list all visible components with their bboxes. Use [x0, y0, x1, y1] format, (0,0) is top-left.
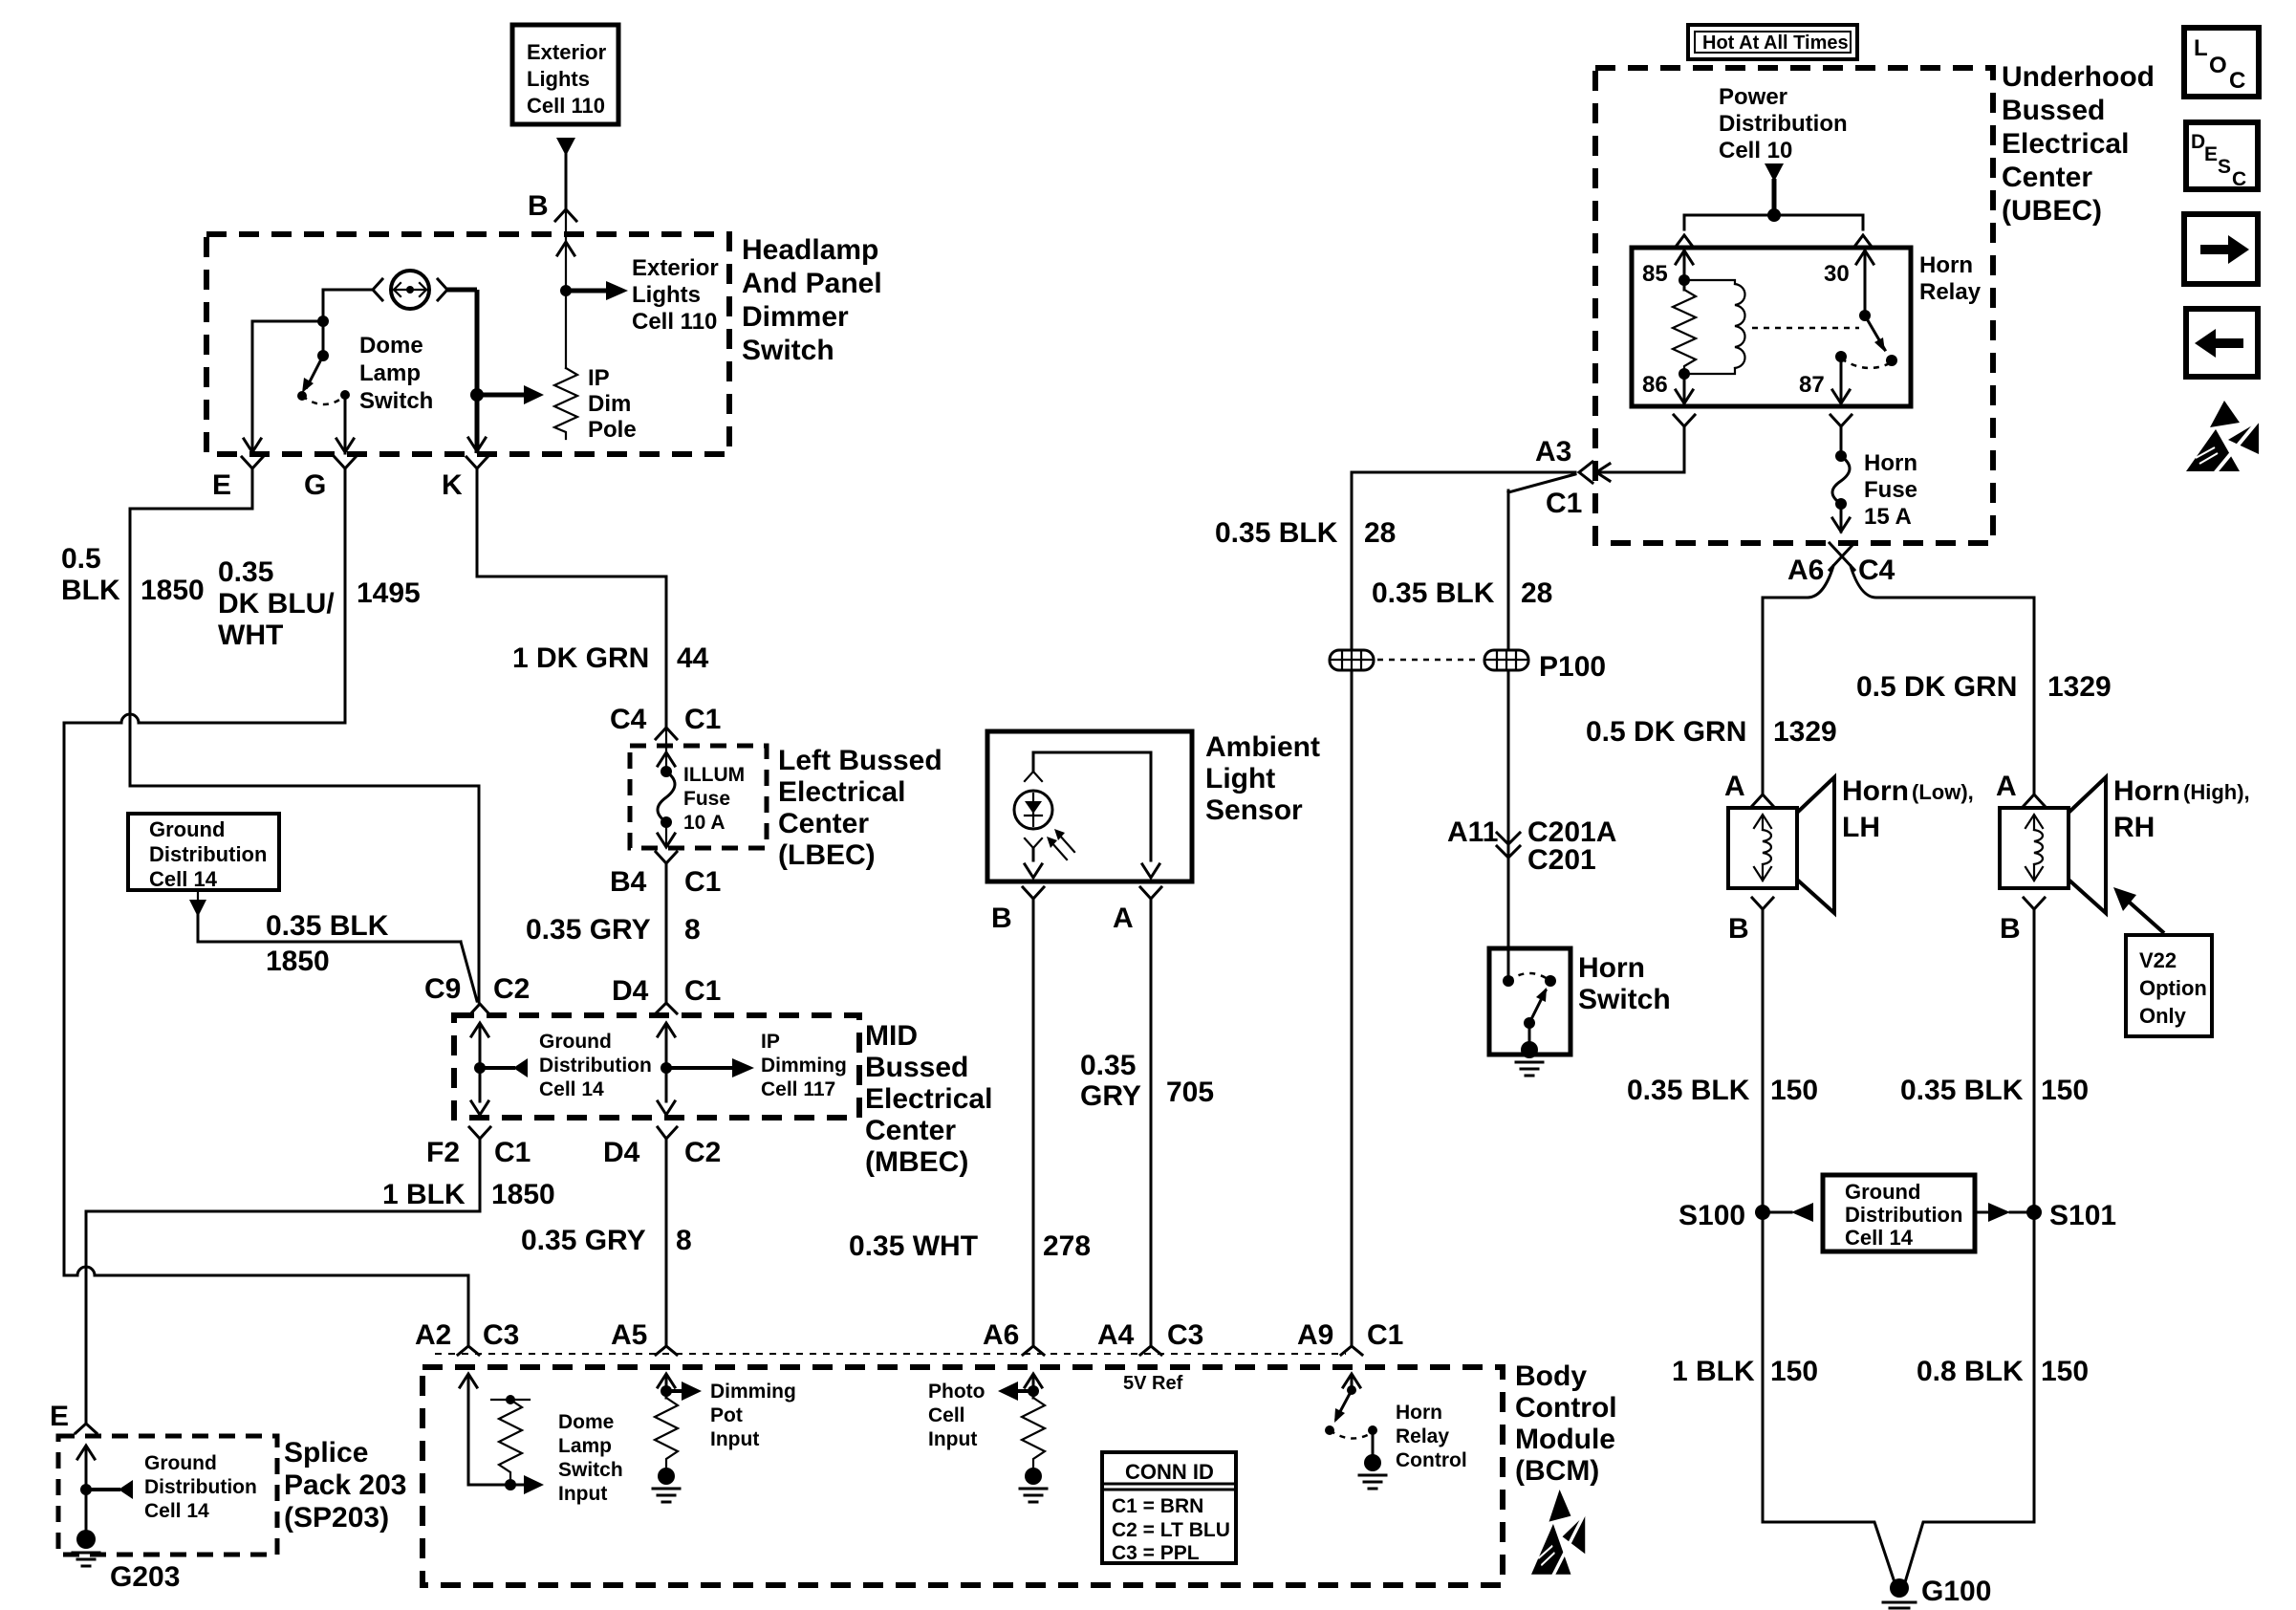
svg-text:A3: A3	[1535, 436, 1571, 468]
svg-text:C201: C201	[1527, 844, 1596, 876]
svg-text:Relay: Relay	[1396, 1425, 1449, 1447]
svg-text:(UBEC): (UBEC)	[2002, 195, 2102, 227]
svg-text:Option: Option	[2139, 976, 2207, 1000]
svg-text:1850: 1850	[266, 946, 330, 977]
svg-text:Pot: Pot	[710, 1404, 743, 1426]
svg-text:E: E	[2204, 143, 2218, 165]
svg-text:WHT: WHT	[218, 620, 283, 651]
svg-text:DK BLU/: DK BLU/	[218, 588, 335, 620]
svg-text:Horn: Horn	[1864, 450, 1917, 476]
svg-text:A: A	[1996, 771, 2017, 802]
svg-text:Center: Center	[778, 808, 869, 839]
svg-text:5V Ref: 5V Ref	[1123, 1373, 1183, 1394]
svg-text:P100: P100	[1539, 651, 1606, 683]
svg-text:C: C	[2229, 68, 2245, 94]
svg-text:Input: Input	[928, 1428, 977, 1450]
svg-text:Light: Light	[1205, 763, 1275, 794]
svg-text:Electrical: Electrical	[2002, 128, 2129, 160]
svg-text:0.35 BLK: 0.35 BLK	[1627, 1075, 1750, 1106]
svg-text:B: B	[2000, 913, 2021, 945]
svg-text:Horn: Horn	[2113, 775, 2180, 807]
svg-text:0.5 DK GRN: 0.5 DK GRN	[1856, 671, 2017, 703]
svg-text:150: 150	[1770, 1356, 1818, 1387]
svg-text:C4: C4	[1858, 555, 1895, 586]
svg-text:Lamp: Lamp	[359, 360, 421, 386]
svg-text:0.35 WHT: 0.35 WHT	[849, 1230, 978, 1262]
svg-text:A4: A4	[1097, 1319, 1135, 1351]
svg-text:Electrical: Electrical	[778, 776, 905, 808]
svg-text:IP: IP	[588, 365, 610, 391]
svg-text:Switch: Switch	[1578, 984, 1671, 1015]
svg-text:CONN ID: CONN ID	[1125, 1460, 1214, 1484]
svg-text:(MBEC): (MBEC)	[865, 1146, 968, 1178]
svg-text:A: A	[1113, 903, 1134, 934]
svg-text:Center: Center	[865, 1115, 956, 1146]
svg-text:Module: Module	[1515, 1424, 1615, 1455]
svg-text:Electrical: Electrical	[865, 1083, 992, 1115]
svg-text:A: A	[1724, 771, 1745, 802]
svg-text:Cell 14: Cell 14	[144, 1500, 209, 1522]
svg-text:GRY: GRY	[1080, 1080, 1141, 1112]
svg-text:B: B	[991, 903, 1012, 934]
svg-text:Distribution: Distribution	[1845, 1203, 1962, 1227]
svg-text:L: L	[2194, 35, 2208, 61]
svg-text:0.35: 0.35	[218, 556, 273, 588]
svg-text:0.35 BLK: 0.35 BLK	[1900, 1075, 2024, 1106]
svg-text:Ground: Ground	[144, 1452, 217, 1474]
svg-text:Distribution: Distribution	[144, 1476, 257, 1498]
svg-text:C9: C9	[424, 973, 461, 1005]
svg-text:G: G	[304, 469, 326, 501]
svg-text:C3: C3	[483, 1319, 519, 1351]
svg-text:28: 28	[1521, 577, 1552, 609]
svg-text:Switch: Switch	[742, 335, 834, 366]
svg-text:Lamp: Lamp	[558, 1435, 612, 1457]
svg-text:Cell 14: Cell 14	[539, 1078, 604, 1100]
svg-text:Cell 14: Cell 14	[1845, 1226, 1914, 1250]
svg-text:86: 86	[1642, 372, 1668, 398]
svg-text:Dimming: Dimming	[710, 1381, 796, 1403]
svg-text:0.35 BLK: 0.35 BLK	[1372, 577, 1495, 609]
svg-text:Distribution: Distribution	[1719, 111, 1848, 137]
svg-text:1 BLK: 1 BLK	[382, 1179, 466, 1210]
svg-text:Underhood: Underhood	[2002, 61, 2155, 93]
svg-text:Body: Body	[1515, 1360, 1587, 1392]
svg-text:G203: G203	[110, 1561, 180, 1593]
svg-text:Pole: Pole	[588, 417, 637, 443]
svg-text:C1: C1	[1367, 1319, 1403, 1351]
svg-text:B: B	[1728, 913, 1749, 945]
svg-text:0.35 BLK: 0.35 BLK	[266, 910, 389, 942]
svg-text:Switch: Switch	[359, 388, 433, 414]
svg-text:44: 44	[677, 642, 709, 674]
svg-text:Center: Center	[2002, 162, 2092, 193]
svg-text:And Panel: And Panel	[742, 268, 882, 299]
svg-text:Fuse: Fuse	[1864, 477, 1917, 503]
svg-text:0.5: 0.5	[61, 543, 101, 575]
svg-text:RH: RH	[2113, 812, 2155, 843]
svg-text:C1: C1	[494, 1137, 531, 1168]
svg-text:E: E	[212, 469, 231, 501]
svg-text:1850: 1850	[141, 575, 205, 606]
svg-text:Fuse: Fuse	[683, 788, 730, 810]
svg-text:B: B	[528, 190, 549, 222]
svg-text:C3: C3	[1167, 1319, 1203, 1351]
svg-text:C: C	[2232, 168, 2246, 190]
svg-text:B4: B4	[610, 866, 647, 898]
svg-text:Exterior: Exterior	[632, 255, 719, 281]
svg-text:Power: Power	[1719, 84, 1787, 110]
svg-text:S101: S101	[2049, 1200, 2116, 1231]
svg-text:1 BLK: 1 BLK	[1672, 1356, 1755, 1387]
svg-text:Distribution: Distribution	[539, 1055, 652, 1077]
svg-text:Photo: Photo	[928, 1381, 985, 1403]
svg-text:0.5 DK GRN: 0.5 DK GRN	[1586, 716, 1746, 748]
svg-text:Control: Control	[1515, 1392, 1617, 1424]
svg-text:S: S	[2218, 156, 2231, 178]
svg-text:Distribution: Distribution	[149, 842, 267, 866]
svg-text:Cell 14: Cell 14	[149, 867, 218, 891]
svg-text:0.35 GRY: 0.35 GRY	[521, 1225, 646, 1256]
svg-text:30: 30	[1824, 261, 1850, 287]
svg-text:Dim: Dim	[588, 391, 631, 417]
svg-text:Bussed: Bussed	[2002, 95, 2105, 126]
svg-text:C2 = LT BLU: C2 = LT BLU	[1112, 1519, 1230, 1541]
svg-text:A5: A5	[611, 1319, 647, 1351]
svg-text:Exterior: Exterior	[527, 40, 607, 64]
svg-text:A2: A2	[415, 1319, 451, 1351]
svg-text:A6: A6	[983, 1319, 1019, 1351]
svg-text:8: 8	[676, 1225, 692, 1256]
svg-text:G100: G100	[1921, 1576, 1991, 1607]
svg-text:Cell: Cell	[928, 1404, 965, 1426]
svg-text:C4: C4	[610, 704, 647, 735]
svg-text:Bussed: Bussed	[865, 1052, 968, 1083]
svg-text:10 A: 10 A	[683, 812, 726, 834]
svg-text:(Low),: (Low),	[1912, 780, 1974, 804]
svg-text:Hot At All Times: Hot At All Times	[1702, 33, 1849, 54]
svg-text:Pack 203: Pack 203	[284, 1469, 406, 1501]
svg-text:Dimmer: Dimmer	[742, 301, 849, 333]
svg-text:Cell 10: Cell 10	[1719, 138, 1792, 163]
svg-text:85: 85	[1642, 261, 1668, 287]
svg-text:D4: D4	[612, 975, 649, 1007]
svg-text:C2: C2	[684, 1137, 721, 1168]
svg-text:Left Bussed: Left Bussed	[778, 745, 942, 776]
svg-text:Cell 110: Cell 110	[527, 94, 605, 118]
svg-text:S100: S100	[1679, 1200, 1745, 1231]
svg-text:Relay: Relay	[1919, 279, 1982, 305]
svg-text:150: 150	[2041, 1356, 2089, 1387]
svg-text:Ambient: Ambient	[1205, 731, 1320, 763]
svg-text:Ground: Ground	[539, 1031, 612, 1053]
svg-text:Switch: Switch	[558, 1459, 623, 1481]
svg-text:Control: Control	[1396, 1449, 1467, 1471]
svg-text:Only: Only	[2139, 1004, 2187, 1028]
svg-text:28: 28	[1364, 517, 1396, 549]
svg-text:A6: A6	[1787, 555, 1824, 586]
svg-text:Splice: Splice	[284, 1437, 368, 1469]
svg-text:(SP203): (SP203)	[284, 1502, 389, 1534]
svg-text:Sensor: Sensor	[1205, 794, 1303, 826]
svg-text:LH: LH	[1842, 812, 1880, 843]
svg-text:Horn: Horn	[1919, 252, 1973, 278]
svg-text:0.8 BLK: 0.8 BLK	[1917, 1356, 2024, 1387]
svg-text:(LBEC): (LBEC)	[778, 839, 876, 871]
svg-text:(High),: (High),	[2183, 780, 2250, 804]
svg-text:D4: D4	[603, 1137, 640, 1168]
svg-text:IP: IP	[761, 1031, 780, 1053]
svg-text:C1: C1	[684, 975, 721, 1007]
svg-text:Lights: Lights	[632, 282, 701, 308]
svg-text:V22: V22	[2139, 948, 2177, 972]
svg-text:Input: Input	[558, 1483, 607, 1505]
svg-text:150: 150	[1770, 1075, 1818, 1106]
svg-text:C1: C1	[684, 866, 721, 898]
svg-text:1 DK GRN: 1 DK GRN	[512, 642, 649, 674]
svg-text:Input: Input	[710, 1428, 759, 1450]
svg-text:C1 = BRN: C1 = BRN	[1112, 1495, 1203, 1517]
svg-text:Horn: Horn	[1396, 1402, 1442, 1424]
svg-text:Dome: Dome	[359, 333, 423, 359]
svg-text:0.35 GRY: 0.35 GRY	[526, 914, 651, 946]
svg-text:1329: 1329	[2047, 671, 2112, 703]
svg-text:Cell 110: Cell 110	[632, 309, 717, 335]
svg-text:C2: C2	[493, 973, 530, 1005]
svg-text:Dimming: Dimming	[761, 1055, 847, 1077]
svg-text:1329: 1329	[1773, 716, 1837, 748]
svg-text:Horn: Horn	[1578, 952, 1645, 984]
svg-text:705: 705	[1166, 1077, 1214, 1108]
svg-text:0.35: 0.35	[1080, 1050, 1136, 1081]
svg-text:E: E	[50, 1401, 69, 1432]
svg-text:1850: 1850	[491, 1179, 555, 1210]
svg-text:A9: A9	[1297, 1319, 1333, 1351]
svg-text:(BCM): (BCM)	[1515, 1455, 1599, 1487]
svg-text:87: 87	[1799, 372, 1825, 398]
svg-text:F2: F2	[426, 1137, 460, 1168]
svg-text:A11: A11	[1447, 816, 1498, 848]
svg-text:C3 = PPL: C3 = PPL	[1112, 1542, 1200, 1564]
svg-text:MID: MID	[865, 1020, 918, 1052]
svg-text:Cell 117: Cell 117	[761, 1078, 835, 1100]
svg-text:C1: C1	[684, 704, 721, 735]
svg-text:15 A: 15 A	[1864, 504, 1912, 530]
svg-text:0.35 BLK: 0.35 BLK	[1215, 517, 1338, 549]
svg-text:1495: 1495	[357, 577, 421, 609]
svg-text:O: O	[2209, 53, 2227, 78]
svg-text:Ground: Ground	[1845, 1180, 1920, 1204]
svg-text:C1: C1	[1546, 488, 1582, 519]
svg-text:Lights: Lights	[527, 67, 590, 91]
svg-text:Dome: Dome	[558, 1411, 614, 1433]
svg-text:ILLUM: ILLUM	[683, 764, 745, 786]
svg-text:D: D	[2191, 131, 2205, 153]
svg-text:150: 150	[2041, 1075, 2089, 1106]
svg-text:Horn: Horn	[1842, 775, 1909, 807]
svg-text:278: 278	[1043, 1230, 1091, 1262]
svg-text:Ground: Ground	[149, 817, 225, 841]
svg-text:K: K	[442, 469, 463, 501]
svg-text:BLK: BLK	[61, 575, 120, 606]
svg-text:Headlamp: Headlamp	[742, 234, 878, 266]
svg-text:8: 8	[684, 914, 701, 946]
